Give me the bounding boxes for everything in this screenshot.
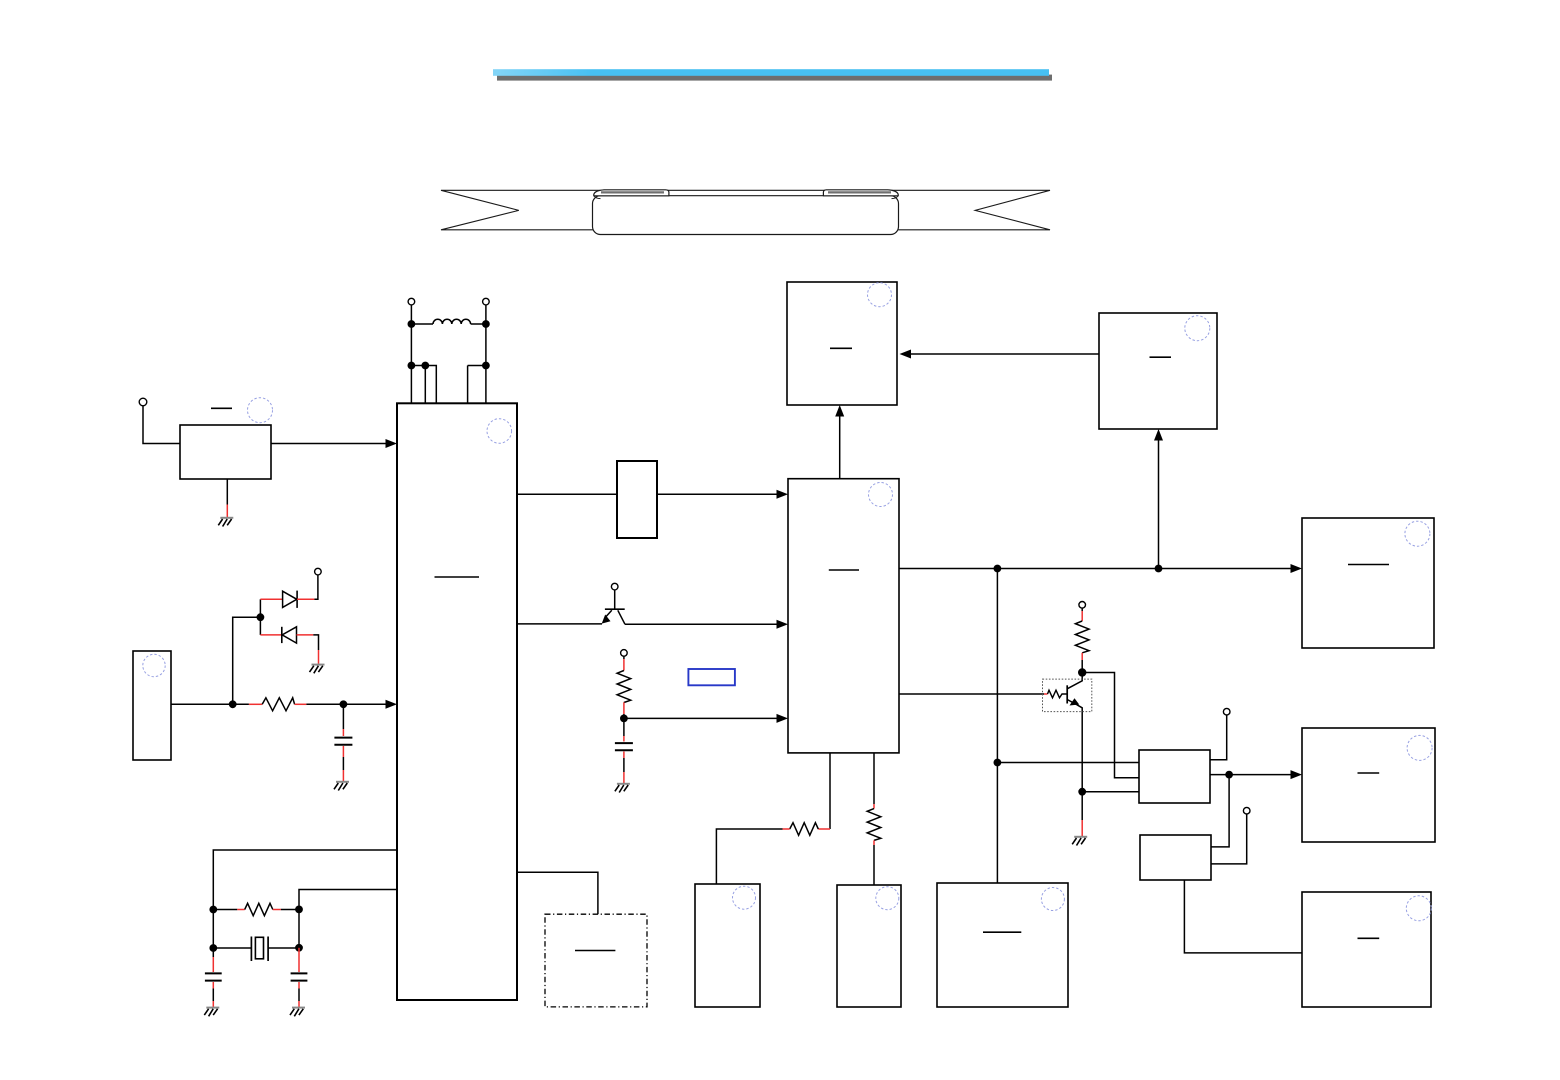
block B13	[937, 883, 1068, 1007]
wire red	[297, 634, 314, 636]
label dash B6	[829, 569, 859, 571]
wire red	[260, 598, 282, 600]
wire to B14	[997, 762, 1139, 764]
capacitor C4	[291, 973, 308, 980]
wire with arrow B4 to B6	[657, 493, 778, 495]
wire red	[298, 1001, 300, 1007]
wire with arrow Q1 to B6	[625, 623, 778, 625]
wire red stub	[273, 909, 281, 911]
wire red	[623, 702, 625, 714]
transistor Q2	[1067, 673, 1082, 792]
label dash B1	[211, 407, 232, 409]
wire red stub	[873, 804, 875, 809]
wire	[410, 305, 412, 324]
terminal P3	[611, 583, 618, 590]
junction	[295, 906, 303, 914]
junction	[209, 944, 217, 952]
wire	[342, 704, 344, 729]
inductor L1	[433, 319, 471, 324]
ground	[204, 1008, 219, 1017]
wire B6 to Q2 base	[899, 693, 1044, 695]
wire	[226, 479, 228, 505]
ground	[218, 518, 233, 527]
wire red stub	[623, 736, 625, 742]
wire	[485, 305, 487, 324]
wire	[623, 758, 625, 772]
block B11	[695, 884, 760, 1007]
transistor Q1	[602, 609, 625, 624]
annotation blue rectangle	[688, 669, 735, 685]
arrow into B8	[1291, 564, 1303, 573]
junction node E	[1155, 565, 1163, 573]
diode D2	[282, 627, 297, 643]
resistor R3	[1075, 621, 1089, 653]
wire red	[1081, 611, 1083, 621]
wire B6 pin to R6	[873, 753, 875, 804]
wire	[171, 703, 233, 705]
wire with arrow into B6	[624, 717, 778, 719]
ribbon band	[441, 190, 1050, 230]
block B10	[1302, 892, 1431, 1007]
annotation circle B13	[1041, 888, 1064, 911]
wire	[314, 575, 318, 599]
capacitor C3	[205, 973, 222, 980]
annotation circle B5	[868, 283, 892, 307]
wire red stub	[295, 703, 307, 705]
wire	[212, 910, 214, 949]
resistor R1	[262, 698, 294, 711]
wire	[1081, 660, 1083, 673]
terminal P5	[1079, 602, 1086, 609]
block B14	[1139, 750, 1210, 803]
block B15	[1140, 835, 1211, 880]
wire	[471, 323, 486, 325]
wire	[467, 366, 469, 404]
wire red stub	[818, 828, 830, 830]
wire red stub	[623, 656, 625, 659]
wire U1 to Q1 emitter	[517, 623, 602, 625]
wire to B14 lower	[1082, 791, 1139, 793]
wire red	[298, 948, 300, 972]
junction node B	[340, 700, 348, 708]
wire	[1081, 792, 1083, 820]
wire	[268, 947, 299, 949]
wire	[517, 872, 598, 914]
block B4	[617, 461, 657, 538]
wire B6 right bus	[899, 568, 1292, 570]
wire red stub	[873, 840, 875, 845]
annotation circle B6	[869, 483, 893, 507]
annotation circle B3	[143, 654, 165, 676]
resistor R5	[790, 823, 819, 836]
terminal P7	[1243, 807, 1250, 814]
label dash B8	[1348, 564, 1389, 566]
wire	[233, 703, 249, 705]
wire red stub	[212, 948, 214, 957]
title underline shadow	[497, 75, 1052, 81]
terminal P1	[139, 398, 147, 406]
annotation circle B9	[1407, 735, 1432, 760]
wire	[213, 850, 397, 910]
annotation circle B7	[1185, 316, 1210, 341]
block B12	[837, 885, 901, 1007]
wire	[716, 829, 782, 884]
terminal ANT2	[483, 298, 490, 305]
wire U1 to B4	[517, 493, 617, 495]
wire red stub	[318, 650, 320, 664]
wire with arrow B7 to B5	[911, 353, 1100, 355]
dotted outline around Q2	[1043, 679, 1092, 712]
ground	[1072, 837, 1087, 846]
wire with arrow B1 to U1	[271, 443, 387, 445]
wire red stub	[342, 746, 344, 757]
resistor R4	[1048, 690, 1068, 698]
annotation circle B8	[1405, 521, 1430, 546]
block B1	[180, 425, 271, 479]
block B7	[1099, 313, 1217, 429]
wire	[299, 890, 397, 910]
wire	[410, 366, 412, 404]
label dash U1	[435, 576, 480, 578]
resistor R6	[867, 809, 881, 841]
wire	[411, 366, 436, 404]
capacitor C1	[334, 738, 352, 745]
wire red stub	[342, 729, 344, 736]
wire red	[1081, 820, 1083, 836]
block B8	[1302, 518, 1434, 648]
wire red	[260, 634, 281, 636]
label dash B7	[1150, 356, 1172, 358]
wire red	[212, 982, 214, 989]
junction	[295, 944, 303, 952]
terminal P2	[315, 568, 322, 575]
wire red stub	[623, 752, 625, 759]
junction node A	[229, 700, 237, 708]
wire	[143, 406, 180, 444]
junction	[408, 320, 416, 328]
wire to terminal	[1211, 814, 1247, 864]
wire	[213, 909, 237, 911]
label dash B13	[983, 931, 1021, 933]
label dash B5	[830, 347, 852, 349]
junction	[482, 320, 490, 328]
wire	[873, 845, 875, 885]
wire with arrow B14 to B9	[1210, 774, 1292, 776]
junction node D	[994, 565, 1002, 573]
wire red	[212, 1001, 214, 1007]
ground	[310, 665, 325, 674]
wire red stub	[249, 703, 262, 705]
wire	[259, 599, 261, 617]
label dash B16	[575, 950, 615, 952]
wire	[233, 617, 261, 704]
ground	[334, 782, 349, 791]
ground	[290, 1008, 305, 1017]
wire	[468, 365, 486, 367]
junction node C	[620, 715, 628, 723]
annotation circle B12	[876, 887, 899, 910]
junction node H	[1078, 788, 1086, 796]
wire red	[1081, 653, 1083, 660]
junction	[408, 362, 416, 370]
terminal ANT1	[408, 298, 415, 305]
wire	[313, 635, 318, 650]
wire red stub	[1081, 608, 1083, 611]
annotation circle U1	[487, 419, 512, 444]
terminal P6	[1223, 708, 1230, 715]
block U1 main IC	[397, 403, 517, 1000]
block B3	[133, 651, 171, 760]
wire red	[297, 598, 314, 600]
wire	[213, 947, 251, 949]
wire down to B15	[1211, 775, 1229, 847]
wire red stub	[1044, 693, 1048, 695]
wire with arrow into U1	[343, 703, 386, 705]
capacitor C2	[615, 743, 633, 750]
junction node F	[994, 759, 1002, 767]
wire	[485, 324, 487, 366]
wire	[411, 323, 433, 325]
wire	[342, 757, 344, 770]
wire to terminal	[1210, 715, 1227, 760]
block B5	[787, 282, 897, 405]
wire red	[623, 659, 625, 671]
resistor R7	[245, 903, 273, 915]
junction	[257, 613, 265, 621]
wire	[485, 366, 487, 404]
annotation circle B11	[733, 886, 756, 909]
wire red	[623, 772, 625, 783]
wire red stub	[783, 828, 790, 830]
diode D1	[283, 591, 298, 608]
wire	[623, 714, 625, 718]
wire red stub	[226, 505, 228, 518]
wire to B14 upper	[1082, 673, 1139, 778]
wire	[410, 324, 412, 366]
wire B15 to B10	[1184, 880, 1302, 953]
junction	[482, 362, 490, 370]
ribbon left roll	[594, 190, 669, 199]
ribbon scroll body	[593, 196, 899, 235]
block B16 dash-dot	[545, 914, 647, 1007]
wire red stub	[237, 909, 244, 911]
ribbon right roll	[823, 190, 898, 199]
wire with arrow B6 to B5	[839, 416, 841, 479]
wire	[306, 703, 343, 705]
label dash B10	[1358, 937, 1380, 939]
junction node I	[1225, 771, 1233, 779]
label dash B9	[1358, 772, 1380, 774]
junction node G	[1078, 668, 1086, 676]
wire	[281, 909, 299, 911]
wire	[259, 617, 261, 635]
wire red	[212, 957, 214, 972]
wire red	[298, 982, 300, 989]
wire red stub	[342, 770, 344, 781]
block B6	[788, 479, 899, 753]
annotation circle B1	[248, 398, 273, 423]
wire	[298, 909, 300, 947]
annotation circle B10	[1406, 896, 1431, 921]
junction	[209, 906, 217, 914]
ground	[615, 784, 630, 793]
wire	[298, 989, 300, 1002]
block B9	[1302, 728, 1435, 842]
wire vertical to B13	[996, 569, 998, 884]
resistor R2	[617, 671, 631, 703]
wire	[623, 718, 625, 736]
wire	[212, 989, 214, 1002]
terminal P4	[621, 650, 628, 657]
wire B6 pin to R5	[829, 753, 831, 829]
wire	[614, 590, 616, 609]
junction	[421, 362, 429, 370]
crystal Y1	[251, 937, 268, 962]
wire	[424, 366, 426, 404]
wire with arrow up to B7	[1158, 440, 1160, 569]
